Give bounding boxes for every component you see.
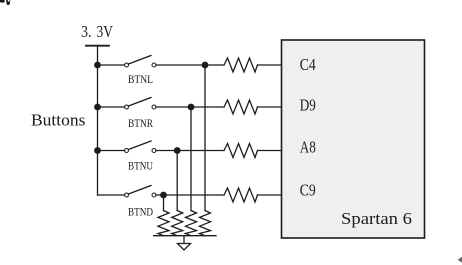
node row1 junction: [202, 62, 209, 69]
ground bar: [154, 235, 216, 237]
node row2 junction: [188, 104, 195, 111]
wire row4 bus to switch: [98, 194, 125, 196]
svg-text:BTND: BTND: [128, 205, 153, 219]
svg-text:D9: D9: [300, 96, 316, 115]
svg-text:BTNU: BTNU: [128, 159, 153, 173]
chip U1 Spartan 6 box: [282, 40, 425, 238]
wire left bus: [97, 65, 99, 195]
svg-text:3.: 3.: [81, 22, 92, 41]
wire net2 vertical drop: [190, 107, 192, 211]
node row3 bus junction: [94, 147, 101, 154]
wire row4 switch to node: [156, 194, 224, 196]
ground triangle: [178, 244, 191, 251]
resistor R2: [224, 100, 258, 114]
node row1 bus junction: [94, 62, 101, 69]
resistor R1: [224, 58, 258, 72]
node row4 junction: [160, 192, 167, 199]
wire R2 to chip: [258, 106, 283, 108]
wire net3 vertical drop: [176, 151, 178, 211]
switch BTND: [125, 186, 157, 219]
wire row2 bus to switch: [98, 106, 125, 108]
screen artifact bottom-right: [458, 257, 462, 263]
svg-text:Spartan 6: Spartan 6: [341, 209, 412, 228]
wire row1 bus to switch: [98, 64, 125, 66]
wire net1 vertical drop: [204, 65, 206, 211]
wire row3 switch to node: [156, 150, 224, 152]
svg-text:C9: C9: [300, 181, 316, 200]
resistor R8 pulldown: [200, 211, 211, 236]
switch BTNR: [125, 98, 157, 131]
switch BTNL: [125, 56, 157, 87]
svg-text:BTNR: BTNR: [128, 116, 153, 130]
resistor R5 pulldown: [158, 211, 169, 236]
resistor R3: [224, 144, 258, 158]
power rail bar: [86, 45, 109, 47]
svg-text:C4: C4: [300, 55, 316, 74]
wire row1 switch to node: [156, 64, 224, 66]
screen artifact top-left: [0, 0, 10, 5]
wire power stub: [97, 46, 99, 65]
svg-text:A8: A8: [300, 138, 316, 157]
svg-text:3V: 3V: [97, 22, 114, 41]
svg-text:BTNL: BTNL: [128, 72, 153, 86]
node row2 bus junction: [94, 104, 101, 111]
resistor R6 pulldown: [172, 211, 183, 236]
resistor R7 pulldown: [186, 211, 197, 236]
wire R1 to chip: [258, 64, 283, 66]
switch BTNU: [125, 141, 157, 173]
wire R4 to chip: [258, 194, 283, 196]
node row3 junction: [174, 147, 181, 154]
svg-text:Buttons: Buttons: [31, 110, 86, 129]
wire net4 vertical drop: [163, 195, 165, 211]
wire R3 to chip: [258, 150, 283, 152]
ground stub: [183, 236, 185, 244]
resistor R4: [224, 188, 258, 202]
wire row3 bus to switch: [98, 150, 125, 152]
wire row2 switch to node: [156, 106, 224, 108]
